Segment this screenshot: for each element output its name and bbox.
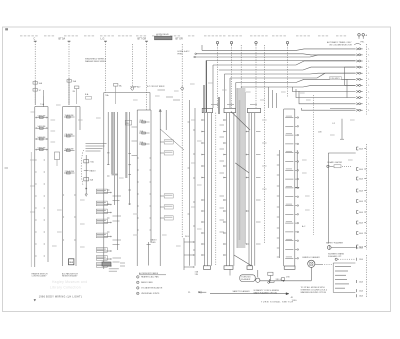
inline connector 310 xyxy=(268,272,282,281)
svg-text:16-B: 16-B xyxy=(359,296,364,298)
fuse panel assembly (main feed) xyxy=(137,93,151,267)
wire accessory riser xyxy=(332,119,344,140)
connector eyelet acc 2 xyxy=(230,41,232,45)
svg-text:5A FUSE: 5A FUSE xyxy=(38,136,47,139)
note instrument feed wires xyxy=(86,144,107,152)
wire harness left rail xyxy=(193,108,195,266)
wire tags cluster A xyxy=(220,125,225,232)
svg-text:1: 1 xyxy=(137,277,138,279)
svg-text:31D G: 31D G xyxy=(276,279,282,281)
terminal cap C xyxy=(34,40,37,42)
bus wire accessory column xyxy=(104,93,150,270)
dashed feeder right xyxy=(313,95,315,235)
svg-text:34-B: 34-B xyxy=(359,148,364,150)
wire ignition 5 xyxy=(213,61,356,65)
svg-text:18-B: 18-B xyxy=(359,247,364,249)
wire number tags xyxy=(30,83,355,247)
connector bracket top xyxy=(354,44,361,45)
harness band 2 xyxy=(125,112,127,178)
wire ignition 7 xyxy=(225,72,356,75)
wire down b2 xyxy=(299,91,356,104)
svg-text:ACCESSORY FEEDS: ACCESSORY FEEDS xyxy=(139,272,159,275)
svg-text:5A FUSE: 5A FUSE xyxy=(38,125,47,128)
connector eyelet acc 1 xyxy=(216,41,218,45)
safety flasher xyxy=(327,246,355,250)
crossover wire 2 xyxy=(235,163,249,173)
svg-text:BT7 GR: BT7 GR xyxy=(138,38,147,41)
misc wire tags xyxy=(166,97,257,105)
wire corner right xyxy=(328,153,355,244)
svg-text:CIGAR LIGHTER: CIGAR LIGHTER xyxy=(327,161,343,164)
ignition switch pigtail ladder xyxy=(284,109,299,269)
svg-text:1: 1 xyxy=(368,73,369,75)
dashed link to switch xyxy=(322,264,333,266)
harness band B wide xyxy=(237,88,246,248)
wire radio feed xyxy=(147,242,151,266)
margin tick xyxy=(5,167,9,169)
accessory switch column xyxy=(159,109,173,266)
fuse block above panel 1 xyxy=(33,80,44,105)
fuse panel assembly (A/C fan feed) xyxy=(63,107,80,266)
wire ignition 2 xyxy=(196,54,356,55)
wire feeder BT7 GR xyxy=(146,42,148,111)
ignition switch connector (middle) xyxy=(357,144,367,250)
emergency flasher xyxy=(308,260,322,281)
wire stub left xyxy=(198,291,206,294)
riser dark 0 xyxy=(203,85,205,112)
inline connector 17B xyxy=(282,276,291,280)
wire feeder acc 5 xyxy=(240,45,242,87)
note automatic transmission xyxy=(327,41,352,46)
wire down e xyxy=(276,93,278,108)
svg-text:FLASHER OPT.: FLASHER OPT. xyxy=(328,255,342,258)
svg-text:34-B: 34-B xyxy=(359,169,364,171)
svg-text:FEED: FEED xyxy=(151,242,157,244)
wire feeder acc 3 xyxy=(255,45,257,108)
svg-text:BT 5A: BT 5A xyxy=(59,38,66,41)
ignition switch detail box xyxy=(333,258,355,292)
svg-text:FLASHER: FLASHER xyxy=(241,278,251,281)
terminal cap BT7GR xyxy=(145,40,148,42)
svg-text:TURN SIGNAL SWITCH: TURN SIGNAL SWITCH xyxy=(261,300,294,303)
ignition switch connector (upper) xyxy=(356,44,369,115)
label heater switch xyxy=(32,272,48,277)
riser 3 xyxy=(201,45,203,50)
wire lower row xyxy=(302,108,356,110)
svg-text:13-B: 13-B xyxy=(359,259,364,261)
harness band B edge 1 xyxy=(236,88,238,248)
turn signal flasher label xyxy=(240,275,255,282)
svg-text:WARNING BUZZER OPTION: WARNING BUZZER OPTION xyxy=(301,291,327,294)
fuse panel assembly (heater switch feed) xyxy=(35,96,48,267)
svg-text:48: 48 xyxy=(291,297,293,299)
connector eyelet acc 3 xyxy=(255,41,257,45)
note BT circuit xyxy=(147,86,165,90)
wire down b xyxy=(296,89,356,98)
label A/C fan switch xyxy=(62,272,78,277)
bracket 17A xyxy=(195,271,199,277)
wire ignition 10 xyxy=(241,85,355,87)
ladder companion line xyxy=(30,152,32,267)
fuse tap (cluster feed) xyxy=(84,155,96,196)
svg-text:1: 1 xyxy=(368,91,369,93)
svg-text:1: 1 xyxy=(368,97,369,99)
wire down a xyxy=(292,87,355,92)
svg-text:FEED: FEED xyxy=(178,54,184,56)
svg-text:1: 1 xyxy=(368,79,369,81)
svg-text:10A FUSE: 10A FUSE xyxy=(65,147,75,150)
svg-text:1: 1 xyxy=(368,55,369,57)
svg-text:15A FUSE: 15A FUSE xyxy=(65,114,75,117)
riser 5 xyxy=(224,74,226,108)
wire ignition 4 xyxy=(206,60,355,62)
svg-text:1966 BODY WIRING (LH LIGHT): 1966 BODY WIRING (LH LIGHT) xyxy=(39,297,82,299)
svg-text:3: 3 xyxy=(137,288,138,290)
svg-text:B.A.: B.A. xyxy=(85,93,89,96)
wire tags right of breaker column xyxy=(113,127,138,262)
svg-text:CONTROL ASSY: CONTROL ASSY xyxy=(32,275,48,278)
terminal bracket left xyxy=(268,279,274,283)
svg-text:B-T CIRCUIT BRKR: B-T CIRCUIT BRKR xyxy=(147,86,165,88)
connector block 1 CB xyxy=(125,120,131,125)
note bottom right xyxy=(301,286,328,294)
cigar lighter row xyxy=(327,161,352,168)
wire feeder horn xyxy=(181,44,183,238)
svg-text:34-B: 34-B xyxy=(359,233,364,235)
wire feeder LG xyxy=(105,42,107,93)
svg-text:Library Collection: Library Collection xyxy=(50,285,81,289)
circuit breaker labels column xyxy=(96,189,111,267)
dark connector block HTR xyxy=(102,262,111,266)
battery eyelets xyxy=(358,34,368,39)
svg-text:7.5A: 7.5A xyxy=(40,103,45,106)
wire label 12B GREY xyxy=(330,77,342,80)
svg-text:15-B: 15-B xyxy=(359,290,364,292)
riser 6 xyxy=(229,78,231,108)
wire corner C5 xyxy=(295,150,299,187)
svg-text:34-B: 34-B xyxy=(359,222,364,224)
svg-text:7.5A: 7.5A xyxy=(90,160,95,163)
svg-text:5A FUSE: 5A FUSE xyxy=(38,114,47,117)
svg-text:VOLTAGE REGULATOR: VOLTAGE REGULATOR xyxy=(141,287,163,290)
svg-text:14-B: 14-B xyxy=(359,281,364,283)
crossover wire 1 xyxy=(231,112,250,131)
harness band 1 bend xyxy=(112,172,117,175)
svg-text:1: 1 xyxy=(368,49,369,51)
harness band B edge 2 xyxy=(244,92,246,244)
bus taps xyxy=(345,67,356,85)
instrument cluster dashed arc xyxy=(81,150,83,185)
svg-text:1: 1 xyxy=(368,104,369,106)
starter relay block xyxy=(155,36,173,40)
caption bullet xyxy=(34,299,36,301)
wire feeder acc 2 xyxy=(231,45,233,108)
label BA fuse xyxy=(85,93,92,99)
terminal cap BT5A xyxy=(68,40,71,42)
connector cluster B (wiper) xyxy=(223,108,235,269)
scan speck top-left xyxy=(5,28,8,30)
connector stub wire 2 xyxy=(195,53,197,55)
svg-text:WASHER FEED WIRES: WASHER FEED WIRES xyxy=(85,60,107,63)
bus jumper 1 xyxy=(344,67,346,85)
svg-text:5A FUSE: 5A FUSE xyxy=(38,146,47,149)
legend accessory feeds xyxy=(137,272,166,295)
wire feeder BT7 xyxy=(131,44,133,87)
svg-text:UNIVERSAL JOINTS: UNIVERSAL JOINTS xyxy=(141,292,160,295)
wire rail 189 xyxy=(188,100,190,266)
svg-text:ON COLUMN SELECTOR: ON COLUMN SELECTOR xyxy=(329,45,352,47)
svg-text:RADIO: RADIO xyxy=(90,169,97,172)
crossover wire 4 xyxy=(160,129,184,150)
riser 4 xyxy=(212,65,214,108)
wire pair 2 xyxy=(118,112,130,250)
junction dot flasher wire xyxy=(283,280,284,281)
note windshield wiper xyxy=(85,59,107,64)
svg-text:WARN FLASHER OPTION: WARN FLASHER OPTION xyxy=(254,291,278,294)
wire ignition 9 xyxy=(236,79,356,82)
fuse block mid xyxy=(114,84,123,105)
wiper switch xyxy=(184,236,194,270)
svg-text:1: 1 xyxy=(368,67,369,69)
wire safety turn xyxy=(210,293,289,295)
terminal cap LG xyxy=(104,40,107,42)
bus jumper 2 xyxy=(346,79,348,97)
riser dark 2 xyxy=(218,97,220,114)
svg-text:34-B: 34-B xyxy=(359,178,364,180)
svg-text:HORN RELAY: HORN RELAY xyxy=(156,33,170,36)
svg-text:SAFETY FLASHER: SAFETY FLASHER xyxy=(233,290,251,293)
label radio xyxy=(151,239,158,244)
harness band 1 xyxy=(111,112,114,174)
wire feeder BT 5A xyxy=(68,42,70,107)
fuse block above panel 2 xyxy=(67,78,79,105)
wire tags cluster C xyxy=(256,132,261,245)
svg-text:BT GR: BT GR xyxy=(176,38,184,41)
wire down d xyxy=(272,90,274,108)
connector 5-way xyxy=(55,152,60,166)
wire feeder acc 1 xyxy=(217,45,219,108)
connector diamond BT7 xyxy=(131,87,134,91)
harness band B core xyxy=(239,100,241,240)
connector cluster A (lighting switch) xyxy=(201,108,215,269)
svg-text:RADIO FEED: RADIO FEED xyxy=(141,281,153,284)
svg-text:7.5A FUSE: 7.5A FUSE xyxy=(65,170,75,173)
watermark ghost text xyxy=(50,280,87,289)
turn signal flasher can xyxy=(256,270,260,282)
riser 7 xyxy=(235,83,237,109)
wire feeder C xyxy=(34,42,36,107)
flasher terminal xyxy=(357,246,364,249)
svg-text:34-B: 34-B xyxy=(359,190,364,192)
svg-text:1: 1 xyxy=(368,85,369,87)
crossover wire 3 xyxy=(234,255,252,266)
connector stub wire 3 xyxy=(194,56,196,58)
connector cluster C (turn signal) xyxy=(246,108,261,269)
svg-text:HEATER & A/C FAN: HEATER & A/C FAN xyxy=(141,276,159,279)
ignition switch connector (lower) xyxy=(357,255,367,298)
resistor RES (blower) xyxy=(69,259,74,265)
wire to terminal row xyxy=(330,108,356,110)
wire down c xyxy=(268,87,270,108)
svg-text:Hagley Museum and: Hagley Museum and xyxy=(52,280,87,284)
wire ignition 1 xyxy=(202,49,356,51)
svg-text:RESISTOR ASSY: RESISTOR ASSY xyxy=(62,275,78,278)
note top mid-right xyxy=(178,50,191,56)
svg-text:2: 2 xyxy=(137,282,138,284)
wire ignition 3 xyxy=(195,55,356,57)
svg-text:12B GREY: 12B GREY xyxy=(330,78,340,80)
connector eyelet acc 4 xyxy=(286,41,288,45)
svg-text:70 AMP ALT: 70 AMP ALT xyxy=(130,86,141,89)
wire stub oval xyxy=(229,269,231,275)
svg-text:34-B: 34-B xyxy=(359,201,364,203)
wire feeder acc 4 xyxy=(287,45,289,97)
note emergency option xyxy=(328,252,345,257)
svg-text:SAFETY FLASHER: SAFETY FLASHER xyxy=(326,241,344,244)
svg-text:EMERG. FLASHER: EMERG. FLASHER xyxy=(303,256,321,259)
wire ignition 6 xyxy=(219,67,356,70)
svg-text:C-2: C-2 xyxy=(332,123,335,125)
svg-text:T-SIG: T-SIG xyxy=(292,300,298,302)
svg-text:L.G: L.G xyxy=(101,38,105,41)
riser 8 xyxy=(240,87,242,108)
connector diamond horn xyxy=(181,87,184,91)
wire pair 1 xyxy=(108,112,114,205)
svg-text:34-B: 34-B xyxy=(359,212,364,214)
tap ticks harness bands xyxy=(107,153,131,232)
top harness routing labels xyxy=(20,35,346,37)
note safety option xyxy=(254,289,280,294)
svg-text:1: 1 xyxy=(368,61,369,63)
riser dark 1 xyxy=(205,61,207,113)
wire feeder acc 6 xyxy=(264,45,266,243)
svg-text:1: 1 xyxy=(368,110,369,112)
wire column C5 xyxy=(277,150,280,258)
wire ignition 8 xyxy=(230,73,356,78)
wire flasher out xyxy=(260,280,311,282)
svg-text:C: C xyxy=(34,38,36,41)
wire tags below HTR block xyxy=(109,263,125,271)
